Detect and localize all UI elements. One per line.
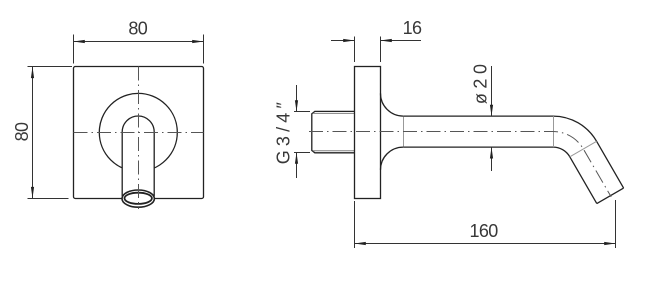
threaded nipple G3/4 body [312, 111, 355, 152]
dimension G3/4: lower arrowhead (points up) [295, 153, 298, 164]
cone-tube seam line [403, 116, 405, 147]
wall flange side rectangle [355, 67, 381, 199]
dimension 80 top: left arrowhead [74, 40, 85, 43]
dimension G3/4: extension line bottom [294, 152, 310, 154]
spout bend outer curve and end [553, 116, 624, 188]
svg-text:160: 160 [469, 221, 498, 241]
dimension 160: left arrowhead [355, 242, 366, 245]
dimension G3/4: upper arrow line [296, 85, 298, 112]
horizontal centerline (front view) [74, 132, 204, 134]
svg-text:G3/4″: G3/4″ [274, 98, 294, 164]
dimension diam20: lower arrow line [491, 147, 493, 171]
dimension 160: right arrowhead [604, 242, 615, 245]
wall plate square 80x80 [74, 67, 204, 199]
dimension diam20: upper arrowhead (points down) [490, 105, 493, 116]
bend start seam [553, 116, 555, 147]
svg-text:ø20: ø20 [471, 60, 491, 105]
cone top curve [381, 93, 404, 116]
spout outlet outer ellipse [122, 190, 154, 207]
spout tube top line [403, 115, 553, 117]
dimension 16: right tail line [381, 40, 422, 42]
dimension 160: extension line left [354, 201, 356, 248]
dimension 16: right arrowhead (points left) [381, 39, 392, 42]
svg-text:80: 80 [12, 122, 32, 141]
dimension G3/4: extension line top [294, 111, 310, 113]
dimension 160: extension line right [615, 200, 617, 248]
spout bend inner curve and end [553, 147, 597, 204]
dimension 16: extension line right [380, 37, 382, 63]
spout end cut line [597, 188, 624, 204]
thread minor line top [313, 112, 355, 114]
bend end seam [570, 141, 597, 157]
dimension 80 top: extension line right [203, 35, 205, 64]
side view centerline [309, 132, 611, 197]
dimension 16: left tail line [331, 40, 355, 42]
spout outlet inner ellipse [125, 193, 152, 204]
thread minor line bottom [313, 150, 355, 152]
dimension 160: dimension line [355, 243, 616, 245]
vertical centerline (front view) [138, 67, 140, 210]
dimension 80 left: extension line top [28, 66, 73, 68]
dimension diam20: lower arrowhead (points up) [490, 147, 493, 158]
dimension 80 left: dimension line [32, 67, 34, 198]
svg-text:80: 80 [128, 19, 147, 39]
spout tube (front view, occludes circle) [122, 116, 154, 196]
escutcheon circle [99, 93, 177, 171]
dimension 80 top: dimension line [74, 41, 204, 43]
spout tube bottom line [403, 146, 553, 148]
dimension G3/4: upper arrowhead (points down) [295, 100, 298, 111]
dimension 80 top: right arrowhead [192, 40, 203, 43]
dimension 80 top: extension line left [73, 35, 75, 64]
dimension G3/4: lower arrow line [296, 153, 298, 179]
dimension 80 left: bottom arrowhead [31, 187, 34, 198]
dimension 80 left: top arrowhead [31, 67, 34, 78]
dimension 80 left: extension line bottom [28, 198, 69, 200]
dimension diam20: upper arrow line [491, 66, 493, 116]
dimension 16: left arrowhead (points right) [343, 39, 354, 42]
cone bottom curve [381, 147, 404, 170]
dimension 16: extension line left [354, 37, 356, 63]
svg-text:16: 16 [403, 18, 422, 38]
